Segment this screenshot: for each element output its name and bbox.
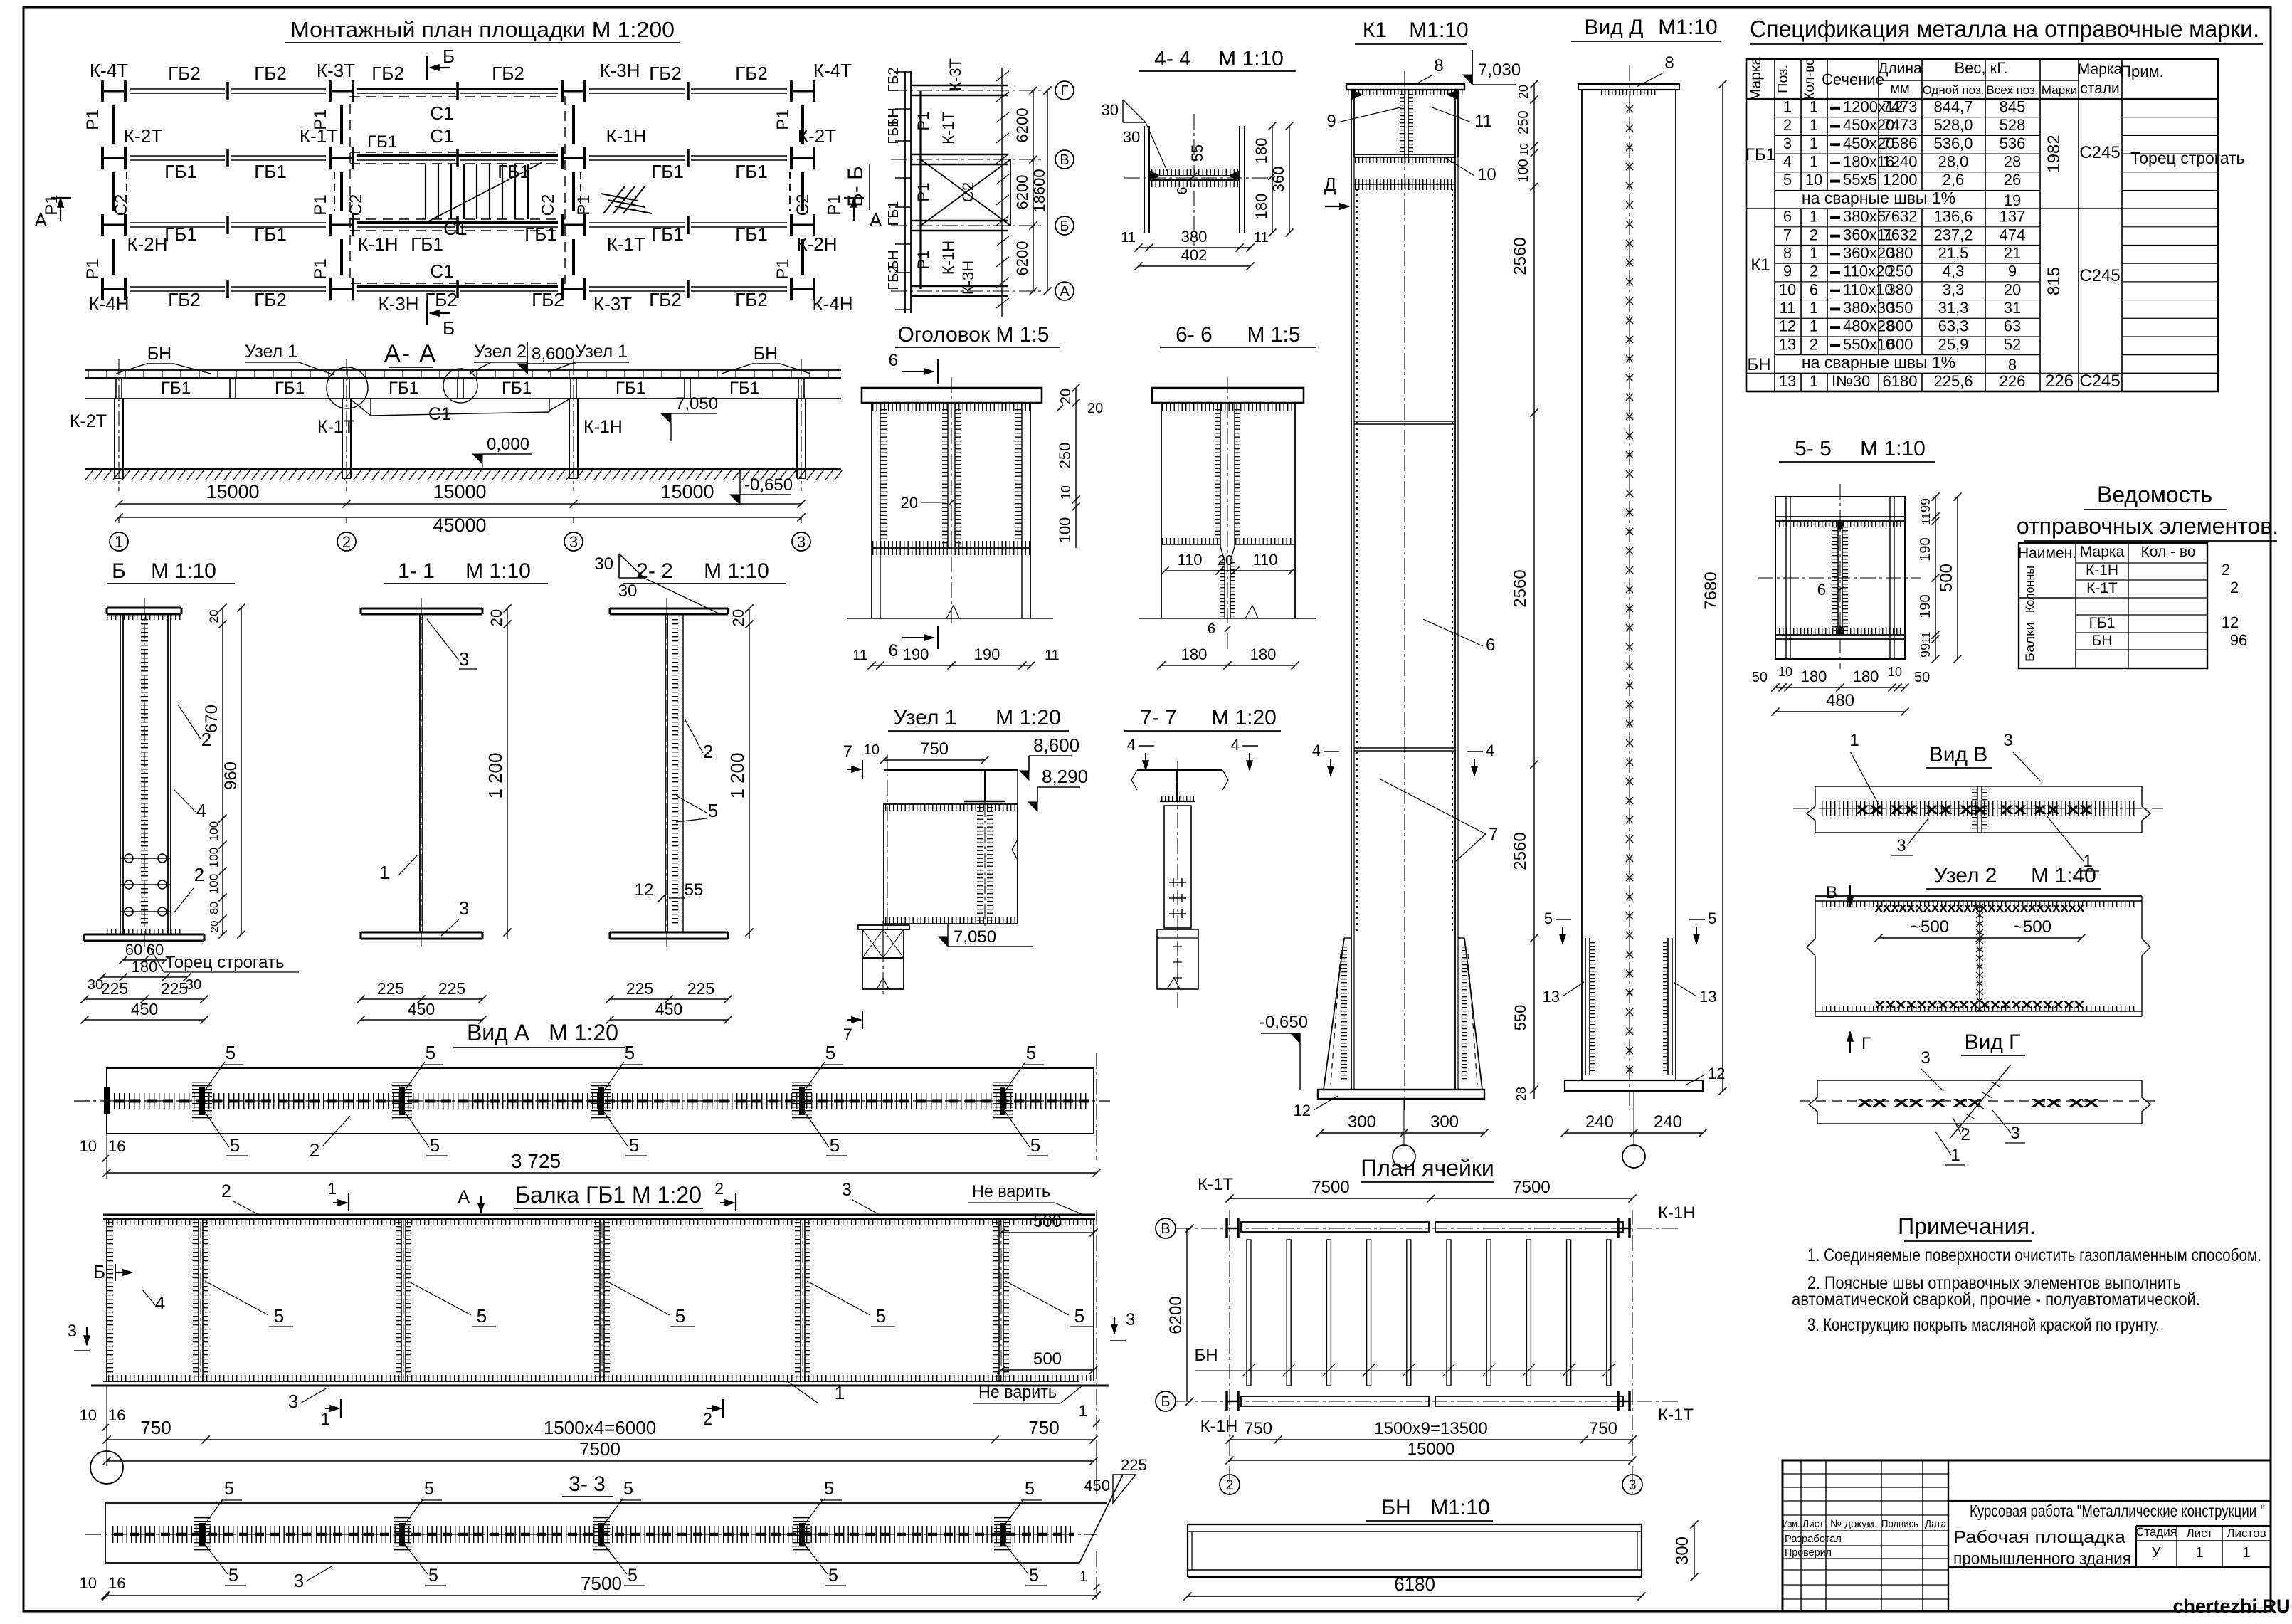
svg-text:ГБ1: ГБ1 — [389, 379, 418, 398]
svg-text:6: 6 — [1783, 208, 1792, 226]
svg-text:С2: С2 — [959, 182, 977, 202]
svg-text:Листов: Листов — [2227, 1527, 2266, 1540]
svg-text:Подпись: Подпись — [1881, 1518, 1918, 1530]
vedomost borders — [2019, 543, 2207, 668]
svg-text:на сварные швы 1%: на сварные швы 1% — [1802, 189, 1955, 207]
GB1 225/450 wedge — [1096, 1440, 1097, 1494]
svg-text:Сечение: Сечение — [1822, 70, 1884, 88]
svg-text:С1: С1 — [430, 260, 453, 282]
5-5 horizontal plates — [1775, 516, 1905, 517]
B-B left beams edge — [904, 71, 906, 313]
svg-text:5: 5 — [226, 1042, 236, 1063]
svg-text:1: 1 — [1810, 244, 1818, 262]
svg-text:~500: ~500 — [2013, 917, 2051, 937]
svg-text:Балки: Балки — [2023, 622, 2037, 662]
svg-text:13: 13 — [1699, 988, 1716, 1006]
svg-text:К-1Т: К-1Т — [1198, 1175, 1233, 1194]
svg-text:ГБ2: ГБ2 — [168, 63, 201, 84]
K1 section marks 4-4 at bottom — [1330, 759, 1331, 776]
svg-text:750: 750 — [1028, 1417, 1059, 1438]
svg-text:10: 10 — [1477, 165, 1496, 184]
svg-text:225: 225 — [438, 979, 465, 998]
svg-text:536: 536 — [2000, 135, 2026, 152]
uzel1 7,050 flag — [939, 937, 948, 947]
plan column marks — [101, 80, 104, 102]
section 1-1 dims — [361, 998, 482, 1000]
svg-text:4: 4 — [1312, 742, 1321, 759]
svg-text:60: 60 — [125, 941, 142, 959]
svg-text:10: 10 — [80, 1574, 97, 1592]
svg-text:25,9: 25,9 — [1938, 335, 1969, 353]
plan C2 rotated labels — [112, 194, 131, 216]
svg-text:3: 3 — [1783, 135, 1792, 152]
B-B hatched cut line — [1001, 68, 1003, 317]
Vid D 7680 dim — [1722, 84, 1723, 1091]
svg-text:Торец строгать: Торец строгать — [2130, 149, 2245, 167]
svg-text:М 1:10: М 1:10 — [151, 559, 216, 583]
svg-text:Узел 1: Узел 1 — [893, 706, 956, 729]
svg-text:50: 50 — [1752, 670, 1768, 685]
svg-text:6: 6 — [1486, 636, 1495, 655]
svg-text:240: 240 — [1654, 1112, 1682, 1132]
5-5 bottom dims — [1775, 687, 1905, 688]
svg-text:7473: 7473 — [1883, 116, 1918, 134]
GB1 axis circle left — [90, 1451, 123, 1484]
svg-text:55х5: 55х5 — [1843, 171, 1877, 189]
K1 base trapezoid — [1324, 938, 1344, 1090]
plan cell axes — [1176, 1228, 1679, 1229]
svg-text:5: 5 — [224, 1479, 234, 1499]
uzel1 top beam flange — [884, 769, 1018, 771]
plan stair ladder lines — [425, 164, 426, 219]
uzel1 big beam box — [884, 804, 1018, 924]
svg-text:-0,650: -0,650 — [1259, 1013, 1308, 1032]
svg-text:16: 16 — [108, 1406, 125, 1424]
svg-text:Марки: Марки — [2042, 83, 2077, 97]
GB1 beam web ends — [106, 1219, 107, 1381]
svg-text:450: 450 — [408, 1000, 435, 1018]
svg-text:Вид Г: Вид Г — [1965, 1030, 2021, 1054]
uzel1 hanging T — [984, 770, 986, 801]
svg-text:3,3: 3,3 — [1943, 280, 1965, 298]
svg-text:2: 2 — [1810, 263, 1818, 280]
svg-text:Проверил: Проверил — [1785, 1546, 1832, 1559]
svg-text:190: 190 — [974, 645, 1000, 663]
svg-text:8: 8 — [1783, 244, 1792, 262]
svg-text:ГБ1: ГБ1 — [497, 161, 530, 182]
A-A deck BN strip — [85, 369, 841, 371]
3-3 beam outline — [105, 1502, 1107, 1504]
svg-text:Стадия: Стадия — [2135, 1525, 2177, 1539]
svg-text:№ докум.: № докум. — [1830, 1518, 1877, 1530]
plan cell bottom dims — [1230, 1439, 1632, 1440]
svg-text:Р1: Р1 — [914, 112, 932, 131]
svg-text:16: 16 — [108, 1574, 125, 1592]
svg-text:Примечания.: Примечания. — [1898, 1213, 2036, 1239]
svg-text:11: 11 — [1474, 112, 1492, 131]
svg-text:Р1: Р1 — [773, 258, 793, 279]
plan hash hatch mark — [603, 186, 625, 213]
svg-text:15000: 15000 — [433, 481, 486, 502]
svg-text:7,050: 7,050 — [675, 394, 718, 413]
3-3 weld clusters — [199, 1523, 205, 1546]
svg-text:12: 12 — [1294, 1102, 1311, 1119]
ogolovok section arrow 6 top — [937, 359, 939, 384]
svg-text:8,600: 8,600 — [1033, 734, 1079, 756]
svg-text:С2: С2 — [793, 194, 813, 216]
svg-text:7: 7 — [1783, 226, 1792, 243]
K1 -0,650 flag — [1299, 1033, 1301, 1090]
svg-text:1200: 1200 — [1883, 171, 1918, 189]
svg-text:ГБ2: ГБ2 — [371, 63, 404, 84]
svg-text:1: 1 — [2195, 1545, 2203, 1561]
svg-text:К-2Т: К-2Т — [798, 125, 836, 147]
svg-text:300: 300 — [1348, 1112, 1376, 1132]
4-4 flanges — [1144, 126, 1145, 233]
svg-text:К-3Т: К-3Т — [317, 60, 355, 81]
svg-text:А: А — [870, 209, 882, 231]
svg-text:8: 8 — [1664, 53, 1674, 73]
svg-text:1500х9=13500: 1500х9=13500 — [1374, 1419, 1488, 1438]
svg-text:9: 9 — [2008, 263, 2017, 280]
svg-text:К-1Т: К-1Т — [317, 417, 354, 437]
svg-text:5: 5 — [1025, 1479, 1035, 1499]
svg-text:К-3Н: К-3Н — [378, 293, 418, 315]
svg-text:360: 360 — [1269, 167, 1287, 193]
svg-text:180: 180 — [1252, 138, 1270, 164]
svg-text:1: 1 — [379, 862, 389, 883]
svg-text:10: 10 — [80, 1137, 97, 1155]
svg-text:К-4Н: К-4Н — [88, 293, 129, 315]
svg-text:Д: Д — [1324, 174, 1336, 195]
svg-text:ГБ1: ГБ1 — [367, 132, 397, 152]
svg-text:М 1:20: М 1:20 — [549, 1020, 618, 1045]
svg-text:3: 3 — [288, 1391, 298, 1412]
svg-text:402: 402 — [1181, 246, 1208, 264]
svg-text:11: 11 — [1780, 299, 1796, 317]
svg-text:2: 2 — [221, 1181, 231, 1201]
svg-text:3: 3 — [294, 1570, 304, 1591]
svg-text:10: 10 — [1805, 171, 1822, 189]
svg-text:10: 10 — [1778, 665, 1792, 679]
svg-text:автоматической сваркой, проч: автоматической сваркой, прочие - полуавт… — [1792, 1290, 2200, 1309]
title block small table verticals — [1800, 1460, 1802, 1611]
svg-text:12: 12 — [2222, 613, 2239, 631]
svg-text:844,7: 844,7 — [1933, 97, 1973, 115]
Vid A weld clusters with labels 5 — [199, 1087, 205, 1115]
svg-text:Б: Б — [1060, 218, 1069, 234]
4-4 dims right — [1272, 126, 1273, 233]
svg-text:55: 55 — [685, 880, 704, 900]
svg-text:Лист: Лист — [2187, 1527, 2213, 1540]
svg-text:2,6: 2,6 — [1943, 171, 1965, 189]
svg-text:190: 190 — [903, 645, 929, 663]
svg-text:Р1: Р1 — [825, 194, 844, 215]
Vid A beam outline — [107, 1068, 1094, 1134]
svg-text:Узел 2: Узел 2 — [1933, 864, 1997, 887]
svg-text:7,050: 7,050 — [954, 927, 996, 947]
ogolovok right dims — [1075, 388, 1077, 548]
GB1 beam flanges — [103, 1214, 1095, 1216]
ogolovok bottom break — [847, 618, 1053, 619]
svg-text:1: 1 — [1810, 116, 1818, 134]
svg-text:8,600: 8,600 — [532, 344, 574, 364]
svg-text:С245: С245 — [2079, 143, 2120, 162]
svg-text:20: 20 — [208, 921, 221, 933]
svg-text:137: 137 — [2000, 208, 2026, 226]
svg-text:20: 20 — [487, 609, 505, 626]
svg-text:2560: 2560 — [1511, 237, 1530, 275]
svg-text:План ячейки: План ячейки — [1361, 1155, 1494, 1181]
svg-text:226: 226 — [2000, 372, 2026, 390]
svg-text:ГБ1: ГБ1 — [164, 223, 197, 245]
svg-text:Кол - во: Кол - во — [2141, 544, 2196, 560]
Vid D column outline — [1582, 90, 1676, 1080]
svg-text:ГБ1: ГБ1 — [886, 201, 902, 226]
svg-text:3: 3 — [1921, 1048, 1930, 1067]
svg-text:8: 8 — [2008, 356, 2017, 374]
svg-text:С1: С1 — [428, 404, 451, 424]
svg-text:7500: 7500 — [1311, 1178, 1349, 1197]
svg-text:5: 5 — [274, 1305, 284, 1327]
svg-text:А: А — [458, 1187, 470, 1207]
svg-text:5: 5 — [1708, 909, 1716, 927]
svg-text:380: 380 — [1181, 228, 1208, 246]
svg-text:Вид А: Вид А — [467, 1020, 530, 1045]
uzel2 beam — [1815, 895, 2142, 897]
svg-text:Марка: Марка — [2080, 544, 2125, 560]
svg-text:28,0: 28,0 — [1938, 153, 1969, 171]
title block big cell lines — [1948, 1500, 2271, 1502]
svg-text:Поз.: Поз. — [1775, 65, 1791, 93]
svg-text:стали: стали — [2080, 80, 2120, 97]
B-B cross bracing C2 — [921, 159, 1010, 226]
svg-text:3 725: 3 725 — [511, 1150, 561, 1172]
svg-text:11: 11 — [1921, 513, 1933, 525]
svg-text:3: 3 — [842, 1180, 852, 1200]
svg-text:Прим.: Прим. — [2120, 63, 2164, 80]
Vid D centre weld line — [1629, 65, 1630, 1110]
svg-text:ГБ2: ГБ2 — [532, 289, 564, 310]
svg-text:5: 5 — [1783, 171, 1792, 189]
svg-text:1: 1 — [1079, 1569, 1087, 1585]
svg-text:845: 845 — [2000, 97, 2026, 115]
uzel2 G arrow — [1849, 1032, 1851, 1053]
svg-text:1: 1 — [1950, 1146, 1960, 1165]
plan section arrows A left/right — [60, 198, 61, 221]
svg-text:Г: Г — [1861, 1034, 1871, 1053]
A-A detail circles uzel — [327, 367, 368, 408]
svg-text:13: 13 — [1779, 335, 1796, 353]
svg-text:380: 380 — [1887, 244, 1913, 262]
svg-text:31,3: 31,3 — [1938, 299, 1969, 317]
svg-text:6: 6 — [889, 641, 898, 660]
svg-text:М 1:10: М 1:10 — [1218, 47, 1284, 70]
K1 base plate — [1318, 1090, 1484, 1099]
svg-text:I№30: I№30 — [1832, 372, 1870, 390]
svg-text:52: 52 — [2004, 335, 2021, 353]
svg-text:К-1Н: К-1Н — [1658, 1203, 1696, 1223]
svg-text:7586: 7586 — [1883, 135, 1918, 152]
svg-text:11: 11 — [1254, 230, 1269, 246]
svg-text:К-4Т: К-4Т — [813, 60, 852, 81]
svg-text:20: 20 — [1087, 401, 1103, 416]
svg-text:Марка: Марка — [2078, 61, 2123, 78]
svg-text:А- А: А- А — [384, 340, 437, 367]
svg-text:180: 180 — [1853, 668, 1879, 685]
svg-text:21,5: 21,5 — [1938, 244, 1969, 262]
svg-text:536,0: 536,0 — [1933, 135, 1973, 152]
svg-text:Р1: Р1 — [311, 109, 330, 130]
svg-text:7: 7 — [1489, 825, 1498, 844]
svg-text:240: 240 — [1585, 1112, 1614, 1132]
svg-text:А: А — [1060, 284, 1070, 300]
svg-text:Ведомость: Ведомость — [2097, 482, 2212, 507]
svg-text:11: 11 — [852, 648, 867, 663]
svg-text:Г: Г — [1061, 83, 1069, 99]
svg-text:20: 20 — [207, 610, 221, 623]
svg-text:8: 8 — [1434, 56, 1443, 75]
svg-text:В: В — [1826, 883, 1837, 902]
Vid G beam — [1817, 1080, 2142, 1081]
BN 6180 dim — [1188, 1596, 1642, 1597]
svg-text:БН: БН — [1381, 1496, 1410, 1519]
svg-text:1: 1 — [1783, 97, 1792, 115]
6-6 body — [1161, 403, 1162, 618]
svg-text:ГБ1: ГБ1 — [616, 379, 645, 398]
A-A girder band GB1 — [85, 377, 841, 379]
6-6 break line — [1139, 618, 1316, 619]
svg-text:7500: 7500 — [581, 1573, 622, 1594]
svg-text:Узел 2: Узел 2 — [474, 342, 527, 362]
svg-text:2: 2 — [2230, 579, 2239, 596]
spec section sketch dashes — [1830, 107, 1840, 110]
svg-text:6: 6 — [889, 351, 898, 370]
title B-B rotated — [844, 166, 867, 207]
plan P1 rotated labels — [83, 109, 102, 130]
A-A ground line with hatch — [85, 468, 841, 470]
Vid A centerline with weld comb — [1096, 1053, 1097, 1160]
GB1 stiffeners with welds — [198, 1219, 199, 1381]
svg-text:М 1:10: М 1:10 — [1860, 437, 1926, 460]
svg-text:300: 300 — [1430, 1112, 1459, 1132]
svg-text:Р1: Р1 — [773, 109, 793, 130]
svg-text:Торец строгать: Торец строгать — [165, 953, 284, 972]
svg-text:100: 100 — [207, 821, 221, 841]
svg-text:180: 180 — [132, 958, 158, 976]
svg-text:6180: 6180 — [1883, 372, 1918, 390]
svg-text:Р1: Р1 — [83, 109, 102, 130]
svg-text:Вид В: Вид В — [1929, 743, 1988, 766]
svg-text:5: 5 — [1074, 1305, 1084, 1327]
svg-text:ГБ1: ГБ1 — [2089, 615, 2116, 631]
svg-text:7: 7 — [843, 742, 852, 761]
svg-text:100: 100 — [207, 848, 221, 868]
svg-text:Длина: Длина — [1878, 60, 1922, 77]
svg-text:6: 6 — [1810, 280, 1818, 298]
svg-text:Р1: Р1 — [574, 194, 593, 215]
svg-text:4: 4 — [1486, 742, 1494, 759]
K1 top H section — [1351, 90, 1352, 157]
svg-text:5- 5: 5- 5 — [1795, 437, 1832, 460]
A-A elevation flag 7,050 — [661, 413, 671, 423]
5-5 centre web — [1837, 521, 1839, 635]
svg-text:1: 1 — [115, 533, 123, 551]
svg-text:10: 10 — [1519, 143, 1531, 156]
svg-text:промышленного здания: промышленного здания — [1953, 1549, 2131, 1568]
svg-text:225: 225 — [626, 979, 653, 998]
6-6 dims 110 20 110 — [1165, 570, 1292, 571]
B-B dim col 6200 — [1033, 90, 1034, 291]
uzel2 dim ~500 ~500 — [1879, 937, 2081, 939]
svg-text:15000: 15000 — [206, 481, 259, 502]
svg-text:7: 7 — [843, 1025, 852, 1045]
spec table outer border — [1746, 59, 2218, 391]
svg-text:5: 5 — [675, 1305, 685, 1327]
svg-text:250: 250 — [1056, 443, 1074, 469]
svg-text:1500х4=6000: 1500х4=6000 — [544, 1417, 656, 1438]
svg-text:К-2Т: К-2Т — [124, 125, 162, 147]
svg-text:225: 225 — [1121, 1456, 1147, 1474]
svg-text:С1: С1 — [443, 218, 467, 239]
svg-text:3: 3 — [68, 1322, 77, 1341]
svg-text:5: 5 — [876, 1305, 886, 1327]
7-7 column bolts — [1169, 882, 1186, 883]
svg-text:180: 180 — [1181, 645, 1208, 663]
plan beam rows — [130, 88, 225, 90]
svg-text:4: 4 — [155, 1292, 165, 1314]
6-6 inner webs — [1220, 403, 1221, 547]
spec table header lines — [1774, 59, 1775, 391]
svg-text:350: 350 — [1887, 299, 1913, 317]
plan vertical braces P1 between rows — [112, 105, 115, 144]
svg-text:1 200: 1 200 — [485, 752, 506, 798]
svg-text:С2: С2 — [112, 194, 131, 216]
svg-text:7,030: 7,030 — [1478, 60, 1521, 80]
svg-text:450: 450 — [131, 1000, 158, 1018]
svg-text:2- 2: 2- 2 — [636, 559, 673, 583]
section 2-2 dims — [610, 998, 728, 1000]
svg-text:750: 750 — [1589, 1419, 1617, 1438]
svg-text:5: 5 — [825, 1042, 835, 1063]
svg-text:250: 250 — [1516, 110, 1531, 134]
svg-text:Узел 1: Узел 1 — [245, 342, 297, 362]
svg-text:К1: К1 — [1363, 19, 1387, 42]
GB1 right-side marks — [1114, 1317, 1115, 1334]
7-7 column — [1164, 806, 1191, 928]
svg-text:ГБ2: ГБ2 — [425, 289, 458, 310]
svg-text:600: 600 — [1887, 335, 1913, 353]
svg-text:ГБ2: ГБ2 — [649, 289, 682, 310]
svg-text:К-1Т: К-1Т — [939, 112, 957, 144]
6-6 bottom dims 180 180 — [1161, 665, 1295, 666]
svg-text:225: 225 — [377, 979, 404, 998]
svg-text:528: 528 — [2000, 116, 2026, 134]
svg-text:50: 50 — [1914, 670, 1930, 685]
svg-text:Колонны: Колонны — [2023, 566, 2037, 613]
svg-text:С1: С1 — [430, 102, 453, 124]
svg-text:6: 6 — [1175, 186, 1190, 194]
5-5 right dims — [1935, 497, 1936, 659]
svg-text:Лист: Лист — [1802, 1518, 1824, 1530]
svg-text:2: 2 — [1810, 226, 1818, 243]
uzel2 centre stiffener xxx — [1979, 901, 1980, 1011]
svg-text:К1: К1 — [1750, 255, 1770, 275]
svg-text:11: 11 — [1921, 632, 1933, 644]
svg-text:БН: БН — [754, 344, 778, 364]
svg-text:К-1Т: К-1Т — [2086, 580, 2118, 596]
svg-text:К-3Т: К-3Т — [946, 58, 964, 91]
